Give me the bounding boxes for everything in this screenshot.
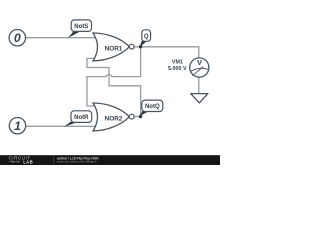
wire Q junction down-left to NOR2 upper input (staircase T, with hop) [87, 47, 141, 106]
footer text [57, 156, 99, 163]
logo CircuitLab [9, 155, 33, 164]
svg-text:LAB: LAB [23, 159, 33, 164]
wire feedback NOR1 lower input to NotQ (staircase S) [87, 58, 141, 116]
svg-text:0: 0 [14, 31, 21, 45]
svg-text:Q: Q [144, 34, 149, 40]
svg-text:NotS: NotS [74, 24, 88, 30]
junction NotQ dot [139, 115, 142, 118]
junction Q dot [139, 45, 142, 48]
wire VM1 bottom to ground [198, 77, 200, 94]
svg-text:NotQ: NotQ [145, 104, 160, 110]
footer bar [0, 155, 220, 165]
nor-gate NOR2 [93, 103, 134, 131]
svg-text:1: 1 [14, 119, 21, 133]
svg-text:NOR2: NOR2 [105, 115, 123, 122]
label VM1 value [168, 60, 187, 72]
nor-gate NOR1 [93, 33, 134, 61]
flag NotS [68, 20, 91, 38]
voltmeter VM1 [190, 58, 209, 77]
node 0 [9, 30, 25, 46]
flag NotR [64, 111, 91, 127]
wire NOR1 output to junction Q and right to VM1 then down [134, 47, 199, 58]
svg-text:V: V [197, 58, 202, 67]
wire node0 to NOR1 top input [26, 37, 96, 39]
wire node1 to NOR2 bottom input [26, 125, 95, 127]
svg-text:NotR: NotR [74, 115, 89, 121]
svg-text:VM1: VM1 [172, 60, 183, 66]
node 1 [9, 118, 25, 134]
svg-text:NOR1: NOR1 [105, 45, 123, 52]
svg-text:5.000 V: 5.000 V [168, 66, 187, 72]
wire NOR2 output stub [134, 116, 141, 118]
footer divider [52, 157, 55, 164]
ground [191, 94, 208, 103]
svg-text:www.circuitlab.com/c/4kpqz2: www.circuitlab.com/c/4kpqz2 [57, 160, 97, 164]
flag Q [140, 30, 151, 48]
flag NotQ [140, 100, 163, 116]
